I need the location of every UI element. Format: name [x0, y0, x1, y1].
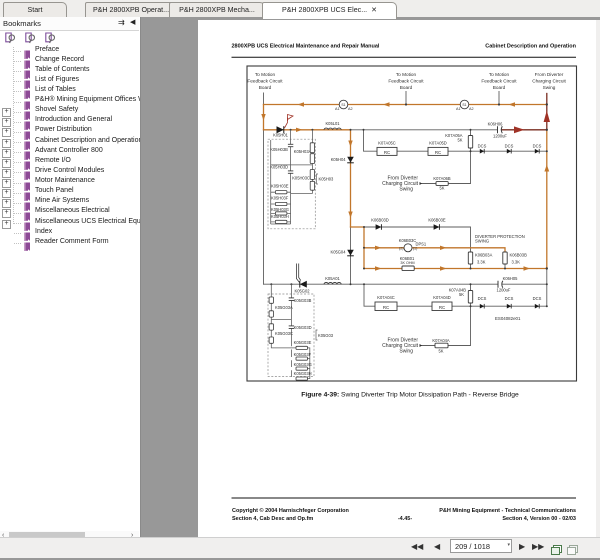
svg-text:-4.45-: -4.45- [398, 516, 413, 522]
resistor K06B03B 3.3K (vertical) [503, 252, 527, 264]
resistors K05G03 left column (stacked) [269, 297, 273, 343]
svg-text:K07A04A: K07A04A [432, 338, 450, 343]
svg-text:S1: S1 [462, 103, 466, 107]
wire: K05H03 bank cross connector [271, 164, 313, 166]
svg-text:DCS: DCS [478, 296, 487, 301]
svg-text:K06H06: K06H06 [488, 121, 504, 126]
wire: orange vertical through K05H04 [350, 130, 352, 227]
capacitor K06H06 1200uF [488, 121, 508, 138]
snubber K07A05C (RC box) [377, 140, 397, 155]
node: To Motion Feedback Circuit Board (left) [247, 72, 283, 90]
svg-text:K05G03E: K05G03E [294, 340, 312, 345]
inductor K05L01 [324, 121, 341, 130]
svg-text:Board: Board [400, 85, 413, 90]
wire: K05G03 bank middle column [290, 284, 292, 377]
wire: left vertical, gray segment down to bottom bus [263, 130, 265, 284]
snubber K07A05D (RC box) [428, 140, 448, 155]
svg-text:DCS: DCS [505, 296, 514, 301]
svg-text:DCS: DCS [478, 143, 487, 148]
wire: K05G03 bank cross connector [271, 319, 291, 321]
node: From Diverter Charging Circuit Swing (upper tap) [382, 176, 422, 193]
node: To Motion Feedback Circuit Board (middle) [388, 72, 424, 90]
resistor K06B03A 3.3K (vertical) [468, 252, 492, 264]
svg-text:2800XPB UCS Electrical Mainten: 2800XPB UCS Electrical Maintenance and R… [232, 44, 380, 50]
wire: K07A05A leads [470, 130, 472, 151]
svg-text:From Diverter: From Diverter [535, 72, 564, 77]
wire: left vertical, orange segment [263, 105, 265, 130]
resistor K05G03H (horizontal) [294, 371, 312, 380]
wire: K05H03 bank right column [291, 130, 313, 194]
svg-text:A2: A2 [469, 107, 474, 111]
capacitor K06H05 1200uF [497, 276, 519, 293]
svg-text:To Motion: To Motion [255, 72, 276, 77]
diode K05G04 (pointing down) [330, 250, 353, 256]
svg-text:A2: A2 [348, 107, 353, 111]
wire: RC branch drop from second bus [364, 130, 378, 151]
wire: between K07A05C and K07A05D [397, 150, 428, 152]
wire: right vertical orange segment [546, 130, 548, 269]
svg-text:5K: 5K [457, 138, 462, 143]
svg-text:K05H03H: K05H03H [271, 214, 289, 219]
bank designator K05H03 [317, 174, 335, 184]
wire: K06B03B bottom lead [504, 264, 506, 269]
arrows: DPS1 line rightward [375, 246, 447, 250]
arrow: right vertical upward orange [544, 165, 549, 172]
wire: lower RC/DCS line to right vertical [452, 305, 547, 307]
svg-text:K05H03: K05H03 [319, 177, 335, 182]
diode K06B03D (pointing right) [371, 218, 389, 230]
wire: orange corner into DPS branch [351, 227, 365, 269]
capacitor K05H03A [288, 144, 312, 154]
wire: K05G03 bank left column [271, 284, 296, 348]
resistor K07A05A 5K (vertical) [445, 133, 473, 148]
svg-text:RC: RC [383, 305, 389, 310]
svg-text:K05L01: K05L01 [325, 121, 340, 126]
arrows: K05H04 vertical downward [348, 141, 352, 148]
svg-text:DCS: DCS [505, 143, 514, 148]
svg-text:Swing: Swing [399, 187, 413, 193]
svg-text:1200uF: 1200uF [493, 133, 507, 138]
svg-text:Feedback Circuit: Feedback Circuit [388, 79, 424, 84]
svg-text:K05G03A: K05G03A [275, 305, 293, 310]
inductor K05A01 [324, 276, 341, 284]
snubber K07A04D (RC box) [432, 295, 452, 310]
wire: lower RC branch drop [364, 284, 375, 306]
resistor K05G03E (horizontal) [294, 340, 312, 349]
capacitor K05G03B [289, 298, 312, 303]
svg-text:K05H03E: K05H03E [271, 184, 289, 189]
footer rule [232, 497, 577, 499]
svg-text:K05H03F: K05H03F [271, 196, 289, 201]
svg-text:RC: RC [435, 150, 441, 155]
junction dots [270, 103, 548, 307]
thyristor K05H01 with red gate-firing symbol [273, 115, 293, 138]
diode K06B03E (pointing right) [428, 218, 446, 230]
svg-text:5K: 5K [438, 349, 443, 354]
resistor K05G03F (horizontal) [294, 352, 312, 360]
svg-text:K05G03B: K05G03B [294, 298, 312, 303]
arrows: K06B01 line rightward [375, 266, 530, 270]
svg-text:K05A01: K05A01 [325, 276, 340, 281]
arrow: maroon capacitor line rightward (large) [514, 126, 525, 133]
svg-text:K05G03C: K05G03C [275, 331, 293, 336]
svg-text:1200uF: 1200uF [497, 288, 511, 293]
DCS diode 3 (lower row) [533, 296, 542, 309]
svg-text:K05G03H: K05G03H [294, 371, 312, 376]
DCS diode 1 (upper row) [478, 143, 487, 153]
resistor K05H03G (horizontal) [271, 207, 291, 215]
wire: K07A04B leads [470, 284, 472, 306]
svg-text:Section 4, Cab Desc and Op.fm: Section 4, Cab Desc and Op.fm [232, 516, 313, 522]
svg-text:K07A04D: K07A04D [433, 295, 451, 300]
figure frame [247, 66, 577, 381]
svg-text:3K OHM: 3K OHM [400, 261, 414, 265]
resistor K05H03F (horizontal) [271, 196, 291, 206]
svg-text:K06B03C: K06B03C [399, 238, 417, 243]
bank designator K05G03 [316, 330, 334, 340]
svg-text:5K: 5K [459, 292, 464, 297]
svg-text:Section 4, Version 00 - 02/03: Section 4, Version 00 - 02/03 [502, 516, 576, 522]
svg-text:K05G03: K05G03 [318, 333, 334, 338]
wire: K06B03A bottom lead [470, 264, 472, 269]
svg-text:SWING: SWING [475, 239, 489, 244]
resistor K06B01 3K OHM (horizontal) [400, 256, 415, 271]
svg-text:DCS: DCS [533, 296, 542, 301]
svg-text:Board: Board [493, 85, 506, 90]
svg-text:5K: 5K [439, 186, 444, 191]
svg-text:K05G03G: K05G03G [294, 362, 312, 367]
motor armature S2 (right) with terminals A1 A2 [456, 100, 474, 111]
svg-text:P&H Mining Equipment - Technic: P&H Mining Equipment - Technical Communi… [439, 508, 576, 514]
thyristor K05G02 with gate leads [294, 264, 310, 294]
tab bar [0, 0, 600, 18]
DCS diode 2 (lower row) [505, 296, 514, 309]
wire: RC/DCS line to right vertical (upper) [448, 150, 547, 152]
svg-text:(1): (1) [413, 247, 418, 251]
svg-text:Figure 4-39: Swing Diverter Tr: Figure 4-39: Swing Diverter Trip Motor D… [301, 392, 519, 399]
svg-text:RC: RC [439, 305, 445, 310]
svg-text:A1: A1 [456, 107, 461, 111]
DCS diode 3 (upper row) [533, 143, 542, 153]
status bar [0, 537, 600, 558]
wire: second bus orange segment through K05H01 and K05L01 [264, 129, 351, 131]
gray viewer background [140, 17, 600, 537]
document page [198, 20, 596, 537]
arrow: left vertical downward [261, 114, 265, 121]
resistor bank K05G03 dashed enclosure [268, 294, 314, 377]
wire: second bus gray segment to capacitor K06H06 [351, 129, 498, 131]
wire: K05H03 bank middle column [290, 130, 292, 224]
svg-text:K05H03G: K05H03G [271, 207, 289, 212]
arrow: right vertical upward maroon (large) [544, 111, 550, 123]
svg-text:K05H03A: K05H03A [294, 149, 312, 154]
wire: stub from middle feedback label to top bus [405, 92, 407, 105]
wire: diode line K06B03D/K06B03E [364, 227, 471, 252]
bookmarks panel [0, 17, 141, 541]
relay coil K06B03C / DPS1 [399, 238, 427, 252]
capacitor K05H03C [288, 171, 310, 181]
arrow: second bus rightward [296, 128, 303, 132]
DCS diode 1 (lower row) [478, 296, 487, 309]
svg-text:ES04082e01: ES04082e01 [495, 316, 521, 321]
wire: bottom bus [264, 283, 498, 285]
svg-text:(2): (2) [399, 247, 404, 251]
resistor K07A04A 5K (horizontal) [432, 338, 450, 354]
svg-text:K07A05C: K07A05C [378, 140, 396, 145]
resistor K07A04B 5K (vertical) [449, 287, 473, 303]
wire: K06B01 line (orange) to right vertical [364, 268, 547, 270]
wire: K05G03 bank right column [308, 348, 310, 379]
wire: K05H03 bank left column [270, 140, 272, 224]
svg-text:Feedback Circuit: Feedback Circuit [247, 79, 283, 84]
svg-text:K05H04: K05H04 [331, 157, 347, 162]
resistor K05G03G (horizontal) [294, 362, 312, 370]
svg-text:Board: Board [259, 85, 272, 90]
svg-text:Copyright © 2004 Harnischfeger: Copyright © 2004 Harnischfeger Corporati… [232, 507, 349, 514]
arrows: top bus flow (orange, leftward) [298, 102, 516, 106]
svg-text:3.3K: 3.3K [512, 259, 521, 264]
svg-text:K05G02: K05G02 [294, 288, 310, 293]
DCS diode 2 (upper row) [505, 143, 514, 153]
wire: right vertical maroon segment [546, 105, 548, 130]
node: To Motion Feedback Circuit Board (right) [481, 72, 517, 90]
svg-text:K05G03D: K05G03D [294, 325, 312, 330]
wire: right vertical gray segment to lower DCS line [546, 269, 548, 307]
wire: gray vertical through K05G04 to bottom bus [350, 227, 352, 284]
svg-text:K05G04: K05G04 [330, 250, 346, 255]
motor armature S1 (left) with terminals A1 A2 [335, 100, 353, 111]
wire: stub from left feedback label to top bus [263, 93, 265, 105]
svg-text:K05G03F: K05G03F [294, 352, 312, 357]
diode K05H04 (pointing down) [331, 157, 354, 163]
svg-text:K05H03C: K05H03C [292, 176, 310, 181]
header rule [232, 56, 577, 58]
resistors K05H03 right column (stacked) [310, 143, 314, 190]
svg-text:3.3K: 3.3K [477, 259, 486, 264]
svg-text:K06B03B: K06B03B [510, 252, 528, 257]
wire: bottom bus right of K06H05 [502, 283, 547, 285]
svg-text:K06H05: K06H05 [503, 276, 519, 281]
wire: K05H03 bank bottom rail [271, 223, 291, 225]
svg-text:K06B03E: K06B03E [428, 218, 446, 223]
resistor K07A06B 5K (horizontal) [433, 176, 451, 190]
resistor K05H03E (horizontal) [271, 184, 291, 194]
resistor bank K05H03 dashed enclosure [268, 139, 315, 229]
wire: K07A06B loop to upper DCS line [422, 151, 471, 183]
svg-text:Feedback Circuit: Feedback Circuit [481, 79, 517, 84]
wire: between K07A04C and K07A04D [397, 305, 432, 307]
svg-text:Charging Circuit: Charging Circuit [532, 79, 566, 84]
wire: maroon segment from K06H06 to right vertical [502, 129, 547, 131]
svg-text:Swing: Swing [399, 349, 413, 355]
svg-text:RC: RC [384, 150, 390, 155]
svg-text:K05H03B: K05H03B [270, 147, 288, 152]
svg-text:K07A05D: K07A05D [429, 140, 447, 145]
snubber K07A04C (RC box) [375, 295, 397, 310]
svg-text:K05H01: K05H01 [273, 133, 289, 138]
svg-text:K06B03D: K06B03D [371, 218, 389, 223]
node: From Diverter Charging Circuit Swing (lower tap) [382, 338, 422, 355]
wire: K07A04A loop to lower DCS line [422, 306, 471, 345]
wire: stub from right feedback label to top bus [498, 92, 500, 105]
resistor K05H03H (horizontal) [271, 214, 291, 223]
text: DIVERTER PROTECTION SWING [475, 234, 525, 244]
svg-text:DCS: DCS [533, 143, 542, 148]
node: From Diverter Charging Circuit Swing (top right) [532, 72, 566, 90]
svg-text:Cabinet Description and Operat: Cabinet Description and Operation [485, 44, 576, 50]
svg-text:Swing: Swing [543, 85, 556, 90]
svg-text:To Motion: To Motion [396, 72, 417, 77]
svg-text:K07A06B: K07A06B [433, 176, 451, 181]
svg-text:K07A04C: K07A04C [377, 295, 395, 300]
svg-text:S1: S1 [341, 103, 345, 107]
svg-text:K05H03D: K05H03D [270, 164, 288, 169]
wire: DPS1 line (orange) [364, 248, 505, 252]
svg-text:To Motion: To Motion [489, 72, 510, 77]
capacitor K05G03D [289, 325, 312, 330]
svg-text:A1: A1 [335, 107, 340, 111]
wire: top horizontal bus (orange) [264, 104, 547, 106]
wire: maroon feed from diverter charging circuit [546, 94, 548, 105]
svg-text:K06B03A: K06B03A [475, 252, 493, 257]
